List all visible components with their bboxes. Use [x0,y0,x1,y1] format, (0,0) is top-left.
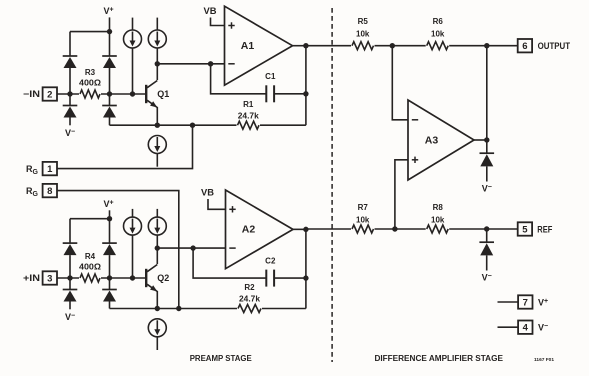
svg-text:400Ω: 400Ω [79,78,102,87]
svg-text:8: 8 [47,186,52,197]
svg-text:A3: A3 [425,134,439,146]
svg-text:10k: 10k [431,30,445,39]
svg-text:C1: C1 [265,72,276,81]
svg-text:VB: VB [204,6,218,16]
svg-text:+IN: +IN [23,273,40,283]
svg-text:R7: R7 [358,203,369,212]
svg-text:C2: C2 [265,256,276,265]
svg-text:10k: 10k [431,216,445,225]
svg-text:R8: R8 [433,203,444,212]
svg-text:24.7k: 24.7k [238,111,260,120]
svg-text:PREAMP STAGE: PREAMP STAGE [190,353,252,363]
svg-text:−IN: −IN [23,89,40,99]
svg-text:7: 7 [523,297,528,308]
svg-text:5: 5 [522,224,528,235]
svg-text:R2: R2 [244,283,255,292]
svg-text:4: 4 [523,323,529,334]
svg-text:3: 3 [47,273,52,284]
svg-text:R1: R1 [243,100,254,109]
svg-text:R5: R5 [358,17,369,26]
svg-text:Q2: Q2 [157,273,169,283]
svg-text:R6: R6 [433,17,444,26]
svg-text:1: 1 [47,164,53,175]
svg-text:24.7k: 24.7k [239,295,261,304]
svg-text:A1: A1 [241,40,255,52]
svg-text:R3: R3 [85,68,96,77]
svg-text:VB: VB [201,188,215,198]
svg-text:REF: REF [537,224,552,234]
svg-text:6: 6 [522,41,527,52]
svg-text:1167 F01: 1167 F01 [534,357,554,362]
svg-text:400Ω: 400Ω [79,262,102,271]
svg-text:10k: 10k [356,216,370,225]
svg-text:R4: R4 [85,252,96,261]
svg-text:A2: A2 [242,224,256,236]
svg-text:10k: 10k [356,30,370,39]
svg-text:DIFFERENCE AMPLIFIER STAGE: DIFFERENCE AMPLIFIER STAGE [374,353,503,363]
svg-text:OUTPUT: OUTPUT [538,41,571,51]
svg-text:Q1: Q1 [157,89,169,99]
svg-text:2: 2 [47,89,52,100]
